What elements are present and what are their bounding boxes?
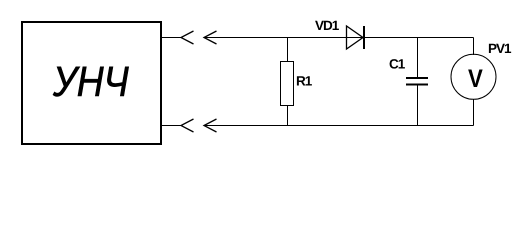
wire: C1 bottom lead xyxy=(417,86,419,126)
label VD1 xyxy=(315,21,339,30)
label R1 xyxy=(297,76,312,85)
wire: bottom stub from amplifier xyxy=(161,125,181,127)
label PV1 xyxy=(489,44,511,53)
wire: C1 top lead xyxy=(417,38,419,78)
wire: R1 top lead xyxy=(287,38,289,62)
wire: bottom horizontal rail xyxy=(204,125,474,127)
connector X2: socket arrow (bottom) xyxy=(181,119,194,132)
diode VD1 xyxy=(347,26,365,49)
amplifier block U1 (УНЧ) xyxy=(22,22,161,144)
wire: R1 bottom lead xyxy=(287,106,289,126)
label C1 xyxy=(390,59,405,69)
connector X1: socket arrow (top) xyxy=(181,31,194,44)
voltmeter PV1 xyxy=(451,54,496,99)
connector X2: plug arrow (bottom) xyxy=(204,119,217,132)
wire: top stub from amplifier output xyxy=(161,37,181,39)
wire: PV1 bottom lead xyxy=(473,99,475,126)
wire: top horizontal rail xyxy=(204,37,474,39)
capacitor C1 xyxy=(406,78,428,85)
wire: PV1 top lead xyxy=(473,38,475,56)
label УНЧ xyxy=(53,67,129,97)
connector X1: plug arrow (top) xyxy=(204,31,217,44)
resistor R1 xyxy=(281,62,294,106)
